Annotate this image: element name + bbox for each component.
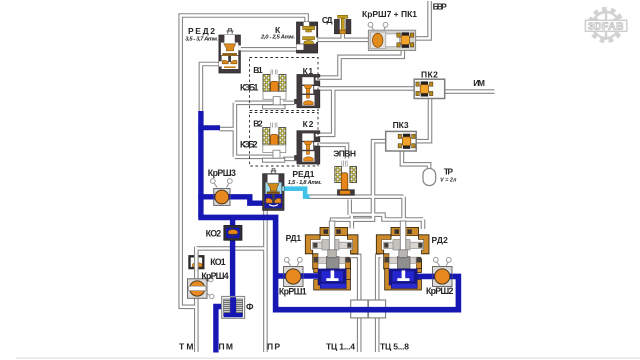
blue KEB supply stub: [198, 125, 220, 130]
wire RD2 top feed: [421, 220, 426, 230]
wire TM frame loop: [181, 16, 307, 307]
wire PK3 to TR: [402, 151, 429, 170]
wire PK2 to PK3 core: [417, 98, 431, 141]
svg-text:ПК3: ПК3: [393, 120, 409, 130]
wire KEB2 base supply core: [235, 156, 273, 158]
wire K1 to PK2: [318, 86, 415, 91]
wire PK3 left to RD1 stem core: [332, 141, 386, 228]
pressure switch SD: [334, 15, 351, 34]
svg-text:В2: В2: [253, 118, 263, 128]
blue KrRSh3 line to RED1: [198, 197, 265, 203]
wire KEB2 to K2: [283, 157, 298, 162]
svg-text:БВР: БВР: [433, 2, 448, 12]
watermark 3DFAB gear logo: [590, 9, 622, 41]
shuttle valve PK3: [386, 131, 417, 151]
svg-text:ПР: ПР: [267, 342, 280, 352]
wire PK2 to IM core: [445, 90, 495, 92]
svg-text:1,5 - 1,8 Атм.: 1,5 - 1,8 Атм.: [288, 180, 322, 186]
wire KEB2 base supply: [235, 155, 273, 160]
svg-text:К1: К1: [303, 66, 314, 76]
wire KEB1 to K1: [283, 101, 295, 106]
svg-text:КрРШ7 + ПК1: КрРШ7 + ПК1: [362, 9, 417, 19]
cyan line from RED1: [284, 189, 310, 197]
svg-text:Ф: Ф: [246, 302, 254, 312]
svg-text:2,0 - 2,5 Атм.: 2,0 - 2,5 Атм.: [260, 34, 295, 40]
svg-text:V = 2л: V = 2л: [440, 178, 457, 184]
wire PK3 to TR core: [402, 151, 429, 170]
svg-text:ТЦ 1...4: ТЦ 1...4: [326, 342, 355, 352]
check valve KO1: [190, 254, 204, 271]
valve K: [297, 22, 318, 53]
wire h1 from RED1 cyan: [307, 194, 404, 199]
svg-text:В1: В1: [253, 65, 263, 75]
wire SD stub core: [342, 34, 344, 40]
TC crossing box 1: [351, 300, 368, 318]
wire h1 drop: [401, 197, 406, 228]
svg-text:3DFAB: 3DFAB: [588, 22, 624, 33]
svg-text:ИМ: ИМ: [473, 78, 485, 88]
valve K2: [294, 131, 320, 164]
wire K1 to K2: [318, 88, 333, 134]
wire EPVN leg: [347, 200, 352, 215]
dashed box V1/KEB1/K1: [250, 58, 319, 111]
wire RED2 drop core: [201, 64, 220, 113]
regulator RED2: [219, 29, 241, 73]
svg-text:КО1: КО1: [210, 257, 226, 267]
svg-text:ПК2: ПК2: [421, 70, 438, 80]
wire PK1 bottom to K1 core: [319, 50, 403, 78]
solenoid V1/KEB1: [263, 70, 286, 109]
wire KEB1 base supply core: [235, 102, 273, 104]
bottom hairline: [16, 357, 640, 359]
solenoid V2/KEB2: [262, 123, 285, 163]
svg-text:ПМ: ПМ: [219, 342, 234, 352]
svg-text:КрРШ3: КрРШ3: [208, 168, 236, 178]
wire PK3 left to RD1 stem: [332, 141, 386, 228]
svg-text:КО2: КО2: [206, 228, 222, 238]
cock KrRSh3: [210, 179, 232, 206]
wire h2 to RD2: [350, 215, 423, 220]
wire h1 core: [307, 195, 404, 197]
blue filter outlet to PM: [216, 307, 223, 353]
relay valve RD2 (mirror supply side): [376, 221, 429, 290]
svg-text:ТМ: ТМ: [179, 342, 194, 352]
wire K1 to PK2 core: [318, 87, 415, 89]
wire h1 drop core: [402, 197, 404, 228]
svg-text:КрРШ2: КрРШ2: [426, 286, 453, 296]
filter F: [222, 297, 245, 319]
svg-text:РД2: РД2: [432, 235, 449, 245]
svg-text:ТР: ТР: [444, 166, 454, 176]
wire RED2 to K core: [241, 48, 297, 50]
solenoid vent valve EPVN: [335, 161, 357, 196]
wire RED2 to K: [241, 47, 297, 52]
wire RD1 top branch: [349, 215, 354, 229]
svg-text:РД1: РД1: [286, 233, 302, 243]
TC crossing box 2: [368, 300, 385, 318]
svg-text:КЭБ1: КЭБ1: [240, 83, 258, 93]
svg-text:КрРШ4: КрРШ4: [201, 271, 228, 281]
wire KO1 to PR branch: [196, 246, 265, 251]
wire KEB1 base supply: [235, 101, 273, 106]
wire KO1 to PR branch core: [196, 247, 265, 249]
reservoir TR: [423, 169, 436, 186]
wire K to KrRSh7 core: [316, 39, 369, 41]
wire PK1 bottom to K1: [319, 50, 403, 78]
dashed box V2/KEB2/K2: [250, 113, 319, 167]
wire KEB2 to K2 core: [283, 158, 298, 160]
wire KEB riser core: [220, 103, 235, 157]
wire RD1 to TC1 core: [351, 256, 360, 352]
wire TM frame loop core: [181, 16, 307, 307]
valve K1: [294, 75, 320, 108]
wire KEB riser: [220, 103, 235, 157]
cock KrRSh4: [188, 277, 215, 298]
svg-text:3,5 - 3,7 Атм.: 3,5 - 3,7 Атм.: [185, 37, 218, 43]
wire SD stub: [340, 34, 345, 40]
wire RD2 to TC2 core: [377, 256, 380, 352]
wire PR riser core: [264, 208, 266, 352]
regulator RED1: [263, 169, 284, 211]
wire KEB1 to K1 core: [283, 102, 295, 104]
svg-text:СД: СД: [322, 15, 333, 25]
blue lower loop to RD1/RD2: [198, 217, 458, 309]
cock KrRSh1: [284, 257, 304, 286]
wire RD1 top branch core: [351, 215, 353, 229]
wire RD2 top feed core: [422, 220, 424, 230]
blue KO2 drop: [230, 215, 235, 299]
blue KrRSh1 line to RD1: [276, 273, 319, 279]
svg-text:ЭПВН: ЭПВН: [333, 149, 356, 159]
svg-text:РЕД2: РЕД2: [188, 26, 215, 36]
svg-text:КрРШ1: КрРШ1: [279, 286, 307, 296]
wire EPVN leg core: [349, 200, 351, 215]
wire TM riser core: [195, 247, 197, 352]
check valve KO2: [224, 225, 242, 240]
wire PK2 to PK3: [417, 98, 431, 141]
cock KrRSh2: [433, 257, 453, 286]
wire K2 to EPVN core: [320, 145, 348, 159]
wire TM riser: [194, 247, 199, 352]
cock+valve KrRSh7 + PK1: [368, 22, 416, 50]
relay valve RD1: [305, 221, 358, 290]
wire PK2 to IM: [445, 89, 495, 94]
blue main riser from RED2: [198, 111, 203, 217]
wire RD1 to TC1: [351, 256, 360, 352]
wire K2 to EPVN: [320, 145, 348, 159]
shuttle valve PK2: [414, 79, 445, 98]
wire K1 to K2 core: [318, 88, 333, 134]
wire PK1 to BVR core: [416, 1, 430, 38]
wire RD2 to TC2: [377, 256, 380, 352]
wire RED2 drop: [201, 64, 220, 113]
svg-text:К2: К2: [303, 119, 314, 129]
wire PK1 to BVR: [416, 1, 430, 38]
wire PR riser: [263, 208, 268, 352]
wire h2 core: [350, 215, 423, 220]
svg-text:КЭБ2: КЭБ2: [240, 140, 258, 150]
svg-text:ТЦ 5...8: ТЦ 5...8: [380, 342, 409, 352]
wire K to KrRSh7: [316, 37, 369, 42]
svg-text:РЕД1: РЕД1: [292, 169, 314, 179]
